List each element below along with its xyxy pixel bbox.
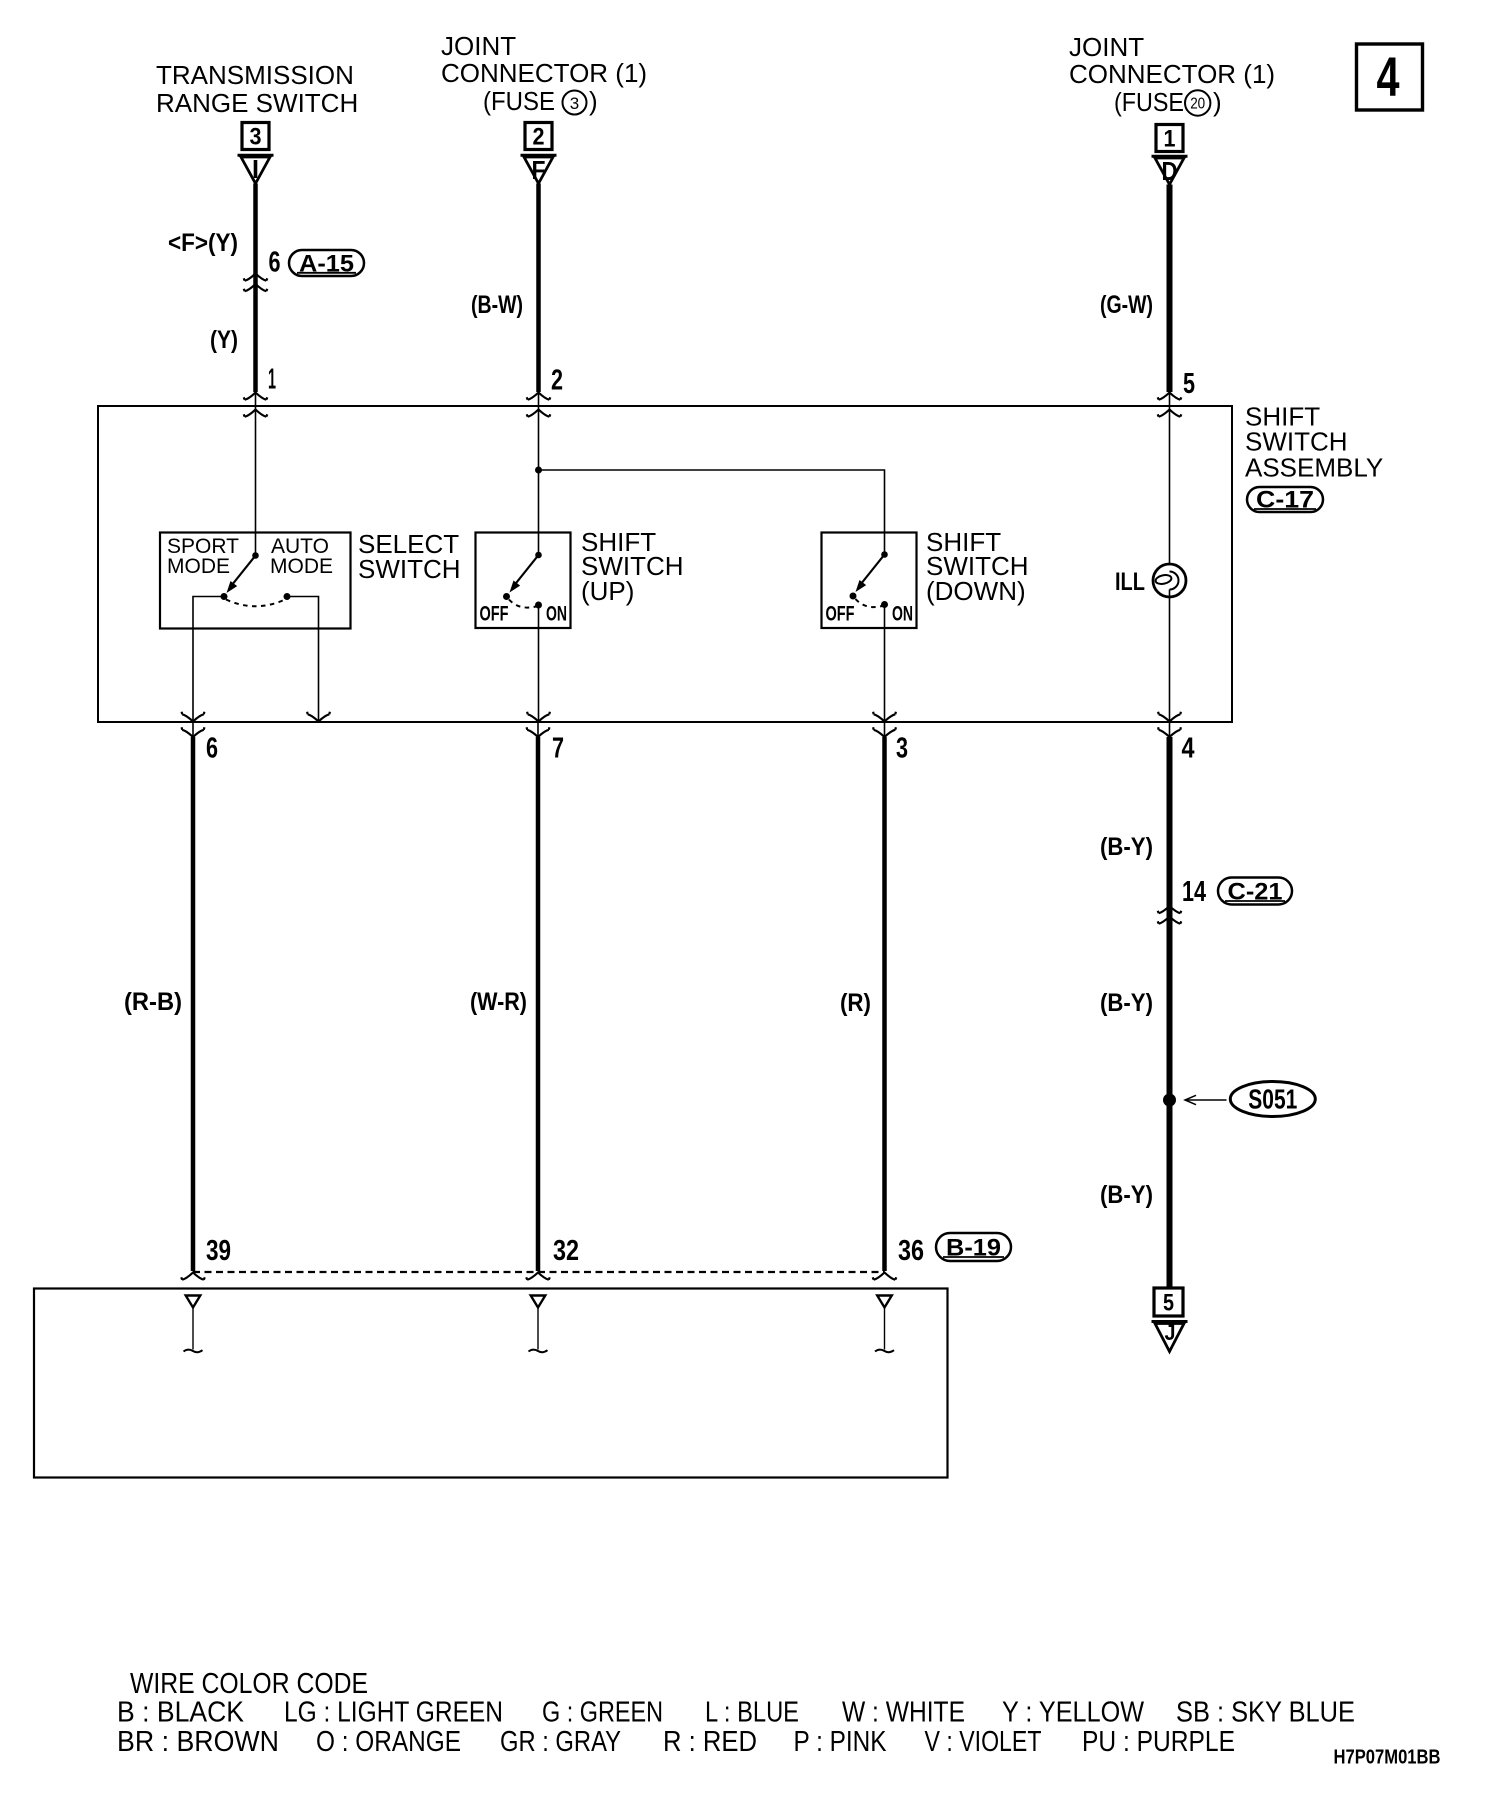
svg-text:J: J <box>1165 1320 1176 1345</box>
svg-text:(DOWN): (DOWN) <box>926 576 1026 606</box>
svg-text:SWITCH: SWITCH <box>358 554 461 584</box>
svg-text:L : BLUE: L : BLUE <box>705 1697 799 1729</box>
svg-text:F: F <box>532 155 546 185</box>
pin 6 connector stub and chevron <box>182 722 205 737</box>
svg-text:36: 36 <box>898 1235 924 1267</box>
svg-text:ASSEMBLY: ASSEMBLY <box>1245 453 1383 483</box>
svg-text:H7P07M01BB: H7P07M01BB <box>1334 1747 1441 1769</box>
svg-text:5: 5 <box>1163 1290 1174 1317</box>
pin 4 exit arrow at assembly box bottom edge <box>1158 712 1181 722</box>
connector symbol 2-F (joint connector fuse 3) <box>521 123 557 186</box>
node on wire 2 <box>535 467 542 474</box>
svg-text:MODE: MODE <box>167 555 230 578</box>
wire (G-W) from joint connector 1 fuse20 <box>1167 185 1173 407</box>
wire (B-Y) pin 4 <box>1167 737 1173 1288</box>
pin 7 connector stub and chevron <box>527 722 550 737</box>
wire (R) pin 3 <box>882 737 887 1271</box>
svg-text:GR : GRAY: GR : GRAY <box>500 1726 621 1758</box>
svg-text:(FUSE: (FUSE <box>483 86 555 116</box>
svg-text:4: 4 <box>1182 733 1195 765</box>
svg-text:14: 14 <box>1182 876 1206 908</box>
svg-text:6: 6 <box>206 733 218 765</box>
svg-text:S051: S051 <box>1248 1084 1297 1115</box>
inline connector A-15 chevrons on wire 1 <box>244 274 268 292</box>
svg-text:Y : YELLOW: Y : YELLOW <box>1002 1697 1145 1729</box>
sheet number box 4 <box>1357 44 1423 110</box>
continuation symbol pin 39 <box>184 1296 203 1353</box>
svg-text:BR : BROWN: BR : BROWN <box>117 1726 279 1758</box>
pin 6 exit arrow at assembly box bottom edge <box>182 712 205 722</box>
svg-text:20: 20 <box>1190 96 1205 113</box>
svg-text:2: 2 <box>551 365 563 397</box>
svg-text:4: 4 <box>1377 45 1400 108</box>
inline connector C-21 chevrons <box>1158 906 1182 924</box>
svg-text:): ) <box>589 86 598 116</box>
svg-text:JOINT: JOINT <box>1069 32 1144 62</box>
svg-text:3: 3 <box>570 94 579 113</box>
shift switch (up) <box>476 533 571 723</box>
shift switch assembly box <box>98 406 1232 722</box>
label SHIFT SWITCH ASSEMBLY <box>1245 402 1383 483</box>
shift switch (down) <box>822 533 917 723</box>
svg-text:G : GREEN: G : GREEN <box>542 1697 663 1729</box>
svg-text:7: 7 <box>552 733 564 765</box>
pin 3 connector stub and chevron <box>873 722 896 737</box>
pin 4 connector stub and chevron <box>1158 722 1181 737</box>
label JOINT CONNECTOR (1) (FUSE 3) <box>441 31 647 116</box>
wire into select switch <box>255 406 257 553</box>
branch wire to shift switch down <box>539 470 885 552</box>
pin 2 <box>527 365 563 417</box>
svg-text:CONNECTOR (1): CONNECTOR (1) <box>441 58 647 88</box>
svg-text:32: 32 <box>553 1235 579 1267</box>
label JOINT CONNECTOR (1) (FUSE 20) <box>1069 32 1275 117</box>
svg-text:B : BLACK: B : BLACK <box>117 1697 245 1729</box>
svg-text:JOINT: JOINT <box>441 31 516 61</box>
continuation symbol pin 32 <box>529 1296 548 1353</box>
svg-text:1: 1 <box>1164 126 1176 153</box>
svg-text:OFF: OFF <box>480 603 509 626</box>
svg-text:W : WHITE: W : WHITE <box>842 1697 965 1729</box>
svg-text:D: D <box>1162 156 1178 186</box>
svg-text:RANGE SWITCH: RANGE SWITCH <box>156 88 358 118</box>
svg-text:ON: ON <box>546 603 567 626</box>
svg-text:(W-R): (W-R) <box>470 988 527 1016</box>
svg-text:(B-W): (B-W) <box>471 291 523 319</box>
wire (R-B) pin 6 <box>191 737 196 1271</box>
svg-text:TRANSMISSION: TRANSMISSION <box>156 60 354 90</box>
svg-text:ON: ON <box>892 603 913 626</box>
connector symbol 1-D (joint connector fuse 20) <box>1152 125 1188 187</box>
svg-text:<F>(Y): <F>(Y) <box>168 229 238 257</box>
svg-text:WIRE COLOR CODE: WIRE COLOR CODE <box>130 1668 368 1700</box>
svg-text:(B-Y): (B-Y) <box>1100 989 1153 1017</box>
capsule C-17 <box>1247 487 1323 514</box>
pin 1 <box>244 364 276 417</box>
splice S051 <box>1163 1082 1315 1117</box>
svg-text:1: 1 <box>268 364 276 396</box>
dashed connector line B-19 <box>193 1271 885 1273</box>
svg-text:(R): (R) <box>840 989 871 1017</box>
svg-text:(Y): (Y) <box>210 326 238 354</box>
svg-text:39: 39 <box>206 1235 231 1267</box>
svg-text:V : VIOLET: V : VIOLET <box>925 1726 1042 1758</box>
connector symbol 3-I (transmission range switch) <box>238 123 274 185</box>
label TRANSMISSION RANGE SWITCH <box>156 60 358 118</box>
ILL lamp <box>1115 564 1186 722</box>
svg-text:SB : SKY BLUE: SB : SKY BLUE <box>1176 1697 1355 1729</box>
svg-text:R : RED: R : RED <box>663 1726 757 1758</box>
auto-mode contact exit arrow at assembly box bottom edge <box>307 712 330 722</box>
wire (Y) from transmission range switch <box>253 184 258 407</box>
ECU box <box>34 1289 948 1478</box>
svg-text:6: 6 <box>269 247 281 279</box>
wire into ILL lamp <box>1169 406 1171 565</box>
svg-text:P : PINK: P : PINK <box>794 1726 888 1758</box>
pin 5 <box>1158 368 1195 417</box>
wire color code legend <box>117 1668 1355 1758</box>
select switch <box>160 533 351 723</box>
svg-text:(G-W): (G-W) <box>1100 291 1153 319</box>
wire into shift switch up <box>538 406 540 553</box>
pin 3 exit arrow at assembly box bottom edge <box>873 712 896 722</box>
svg-text:(R-B): (R-B) <box>124 988 182 1016</box>
svg-text:): ) <box>1213 87 1222 117</box>
svg-text:(UP): (UP) <box>581 576 634 606</box>
svg-text:CONNECTOR (1): CONNECTOR (1) <box>1069 59 1275 89</box>
svg-text:2: 2 <box>533 124 545 151</box>
svg-text:I: I <box>252 154 259 184</box>
svg-text:5: 5 <box>1183 368 1195 400</box>
svg-text:(B-Y): (B-Y) <box>1100 833 1153 861</box>
wire (W-R) pin 7 <box>536 737 541 1271</box>
svg-text:PU : PURPLE: PU : PURPLE <box>1082 1726 1235 1758</box>
svg-text:OFF: OFF <box>826 603 855 626</box>
continuation symbol pin 36 <box>875 1296 894 1353</box>
svg-text:MODE: MODE <box>270 555 333 578</box>
svg-text:3: 3 <box>896 733 908 765</box>
svg-text:LG : LIGHT GREEN: LG : LIGHT GREEN <box>284 1697 503 1729</box>
wire (B-W) from joint connector 1 <box>536 184 541 407</box>
svg-text:3: 3 <box>250 124 262 151</box>
svg-text:O : ORANGE: O : ORANGE <box>316 1726 461 1758</box>
svg-text:ILL: ILL <box>1115 568 1145 596</box>
capsule B-19 <box>936 1233 1011 1262</box>
svg-text:(B-Y): (B-Y) <box>1100 1181 1153 1209</box>
pin 7 exit arrow at assembly box bottom edge <box>527 712 550 722</box>
connector symbol 5-J at bottom of (B-Y) <box>1152 1288 1188 1352</box>
svg-text:(FUSE: (FUSE <box>1114 87 1184 117</box>
